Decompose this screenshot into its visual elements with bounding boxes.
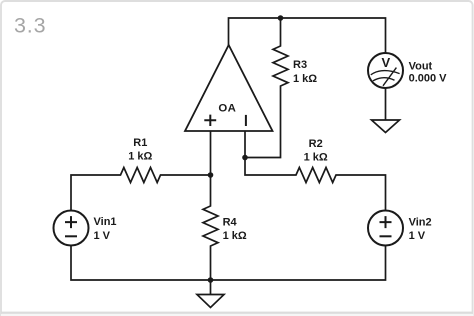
svg-text:0.000 V: 0.000 V [409, 72, 448, 84]
svg-text:1 kΩ: 1 kΩ [128, 151, 152, 163]
svg-text:V: V [381, 55, 390, 70]
svg-text:1 kΩ: 1 kΩ [293, 73, 317, 85]
svg-text:1 V: 1 V [409, 230, 426, 242]
svg-text:R4: R4 [223, 216, 238, 228]
svg-text:Vin2: Vin2 [409, 216, 432, 228]
svg-text:1 V: 1 V [94, 230, 111, 242]
svg-text:R3: R3 [293, 59, 307, 71]
svg-text:Vin1: Vin1 [94, 216, 117, 228]
svg-text:3.3: 3.3 [14, 13, 46, 37]
svg-text:1 kΩ: 1 kΩ [223, 230, 247, 242]
svg-text:R2: R2 [309, 138, 323, 150]
svg-text:R1: R1 [133, 137, 147, 149]
svg-text:OA: OA [218, 102, 236, 114]
svg-text:1 kΩ: 1 kΩ [304, 152, 328, 164]
svg-text:Vout: Vout [409, 61, 433, 73]
